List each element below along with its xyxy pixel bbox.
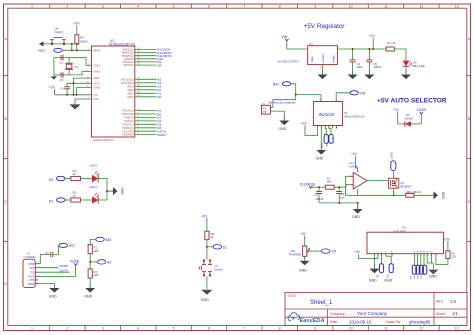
ground (crystal) bbox=[51, 75, 57, 80]
wire bbox=[304, 256, 306, 260]
ground (D2) bbox=[401, 70, 411, 79]
net flag BAT bbox=[273, 82, 291, 87]
svg-text:GND: GND bbox=[441, 192, 445, 200]
ground flag GND (rotated right) bbox=[434, 191, 445, 199]
svg-text:100nF: 100nF bbox=[316, 197, 324, 201]
wire bbox=[206, 276, 208, 289]
wire GND pin bbox=[75, 99, 92, 104]
svg-text:22K: 22K bbox=[94, 273, 99, 277]
svg-text:GND: GND bbox=[84, 295, 92, 299]
svg-text:10R milliohm: 10R milliohm bbox=[406, 190, 423, 194]
wire gate bbox=[367, 180, 388, 182]
svg-text:SCL: SCL bbox=[325, 143, 328, 148]
svg-text:X1: X1 bbox=[75, 65, 79, 69]
svg-text:13: 13 bbox=[455, 4, 459, 8]
MCU pin 27 A4 bbox=[121, 81, 162, 85]
svg-text:GND: GND bbox=[279, 127, 287, 131]
svg-text:6: 6 bbox=[208, 4, 210, 8]
svg-text:XTAL2: XTAL2 bbox=[93, 71, 101, 74]
power flag +5V (VCC) bbox=[49, 85, 56, 95]
svg-text:11: 11 bbox=[384, 326, 388, 330]
wire bbox=[65, 199, 71, 201]
I2C pin headers SDA SCL bbox=[320, 129, 333, 150]
svg-text:-: - bbox=[354, 175, 355, 179]
svg-text:+: + bbox=[354, 184, 356, 188]
svg-text:A0: A0 bbox=[157, 95, 161, 99]
svg-text:C8: C8 bbox=[60, 78, 64, 82]
ground (button) bbox=[201, 290, 213, 302]
wire DTR to RST bbox=[38, 245, 59, 263]
connector U7 FT232RL bbox=[23, 251, 36, 287]
svg-text:Sheet_1: Sheet_1 bbox=[310, 300, 333, 306]
MCU pin 12 D6 bbox=[122, 112, 161, 116]
power flag +5V (backlight) bbox=[444, 237, 451, 250]
svg-text:11: 11 bbox=[384, 4, 388, 8]
svg-text:8: 8 bbox=[279, 4, 281, 8]
wire bbox=[405, 66, 407, 74]
wire bbox=[287, 41, 308, 49]
power flag +5V bbox=[393, 108, 400, 124]
LED2 bbox=[90, 163, 100, 182]
U7 pin stubs bbox=[35, 264, 38, 284]
power flag +5V bbox=[201, 214, 208, 231]
ground (MCU) bbox=[69, 104, 80, 109]
svg-text:D11/MOSI: D11/MOSI bbox=[300, 182, 315, 186]
wire TX bbox=[38, 268, 70, 272]
svg-text:GND: GND bbox=[28, 282, 36, 286]
svg-text:4: 4 bbox=[137, 4, 139, 8]
title block bbox=[285, 292, 467, 325]
MCU pin 23 A0 bbox=[127, 95, 161, 99]
svg-text:ATMEGA328P-PU: ATMEGA328P-PU bbox=[109, 43, 136, 47]
svg-text:D1/TX: D1/TX bbox=[59, 268, 68, 272]
svg-text:PD0(RXD): PD0(RXD) bbox=[122, 134, 133, 137]
wire INA219 IN+ to VIN flag bbox=[336, 91, 366, 99]
LED D2 bbox=[403, 61, 425, 68]
wire crystal to XTAL1 bbox=[68, 58, 91, 75]
MCU pin 28 A5 bbox=[121, 78, 161, 82]
wire pin1 to ground bbox=[374, 256, 376, 268]
svg-text:C7: C7 bbox=[60, 61, 64, 65]
svg-text:7: 7 bbox=[243, 4, 245, 8]
svg-text:+5V: +5V bbox=[393, 108, 400, 112]
MCU pin 15 D9 bbox=[123, 60, 162, 64]
svg-text:RST: RST bbox=[69, 244, 75, 248]
net flag BAT bbox=[96, 237, 112, 242]
MCU pin 26 A3 bbox=[127, 85, 161, 89]
net flag VIN bbox=[282, 35, 289, 41]
ground (P1) bbox=[279, 116, 290, 131]
resistor R7 bbox=[325, 176, 334, 189]
title block values bbox=[310, 299, 458, 325]
svg-text:GND: GND bbox=[201, 298, 210, 302]
resistor R3 bbox=[386, 41, 396, 51]
port arrow RST bbox=[39, 41, 46, 52]
svg-text:ADC0: ADC0 bbox=[127, 96, 134, 99]
MCU pin 17 D11/MOSI bbox=[121, 54, 171, 58]
svg-text:Input: Input bbox=[310, 56, 314, 62]
svg-text:U4: U4 bbox=[309, 42, 313, 46]
svg-text:+5V: +5V bbox=[354, 250, 361, 254]
MCU pin 25 A2 bbox=[127, 88, 161, 92]
wire bbox=[89, 278, 91, 287]
svg-text:Bornera 2p ensamble: Bornera 2p ensamble bbox=[269, 100, 296, 104]
wire bbox=[414, 194, 434, 196]
wire VCC + net flag VUSB bbox=[38, 260, 80, 277]
LCD pin numbers bbox=[373, 252, 433, 254]
ground (U7) bbox=[49, 284, 60, 299]
svg-text:1: 1 bbox=[31, 326, 33, 330]
connector JP1 LCD 16x2 bbox=[367, 226, 444, 254]
pin header RS (capsule) bbox=[385, 256, 393, 278]
junction dot bbox=[106, 190, 108, 192]
svg-text:2: 2 bbox=[66, 4, 68, 8]
regulator U4 MC7805CDTRKG bbox=[278, 42, 338, 65]
capacitor C7 bbox=[60, 55, 64, 65]
svg-text:GND: GND bbox=[369, 279, 377, 283]
svg-text:D1: D1 bbox=[223, 245, 227, 249]
svg-text:GND: GND bbox=[93, 98, 99, 101]
MCU pin 24 A1 bbox=[127, 92, 161, 96]
svg-text:Blue LED: Blue LED bbox=[413, 64, 425, 68]
wire bbox=[76, 44, 78, 50]
svg-text:5: 5 bbox=[173, 4, 175, 8]
svg-text:10: 10 bbox=[349, 4, 353, 8]
svg-text:10: 10 bbox=[349, 326, 353, 330]
svg-text:6: 6 bbox=[208, 326, 210, 330]
svg-text:TITLE:: TITLE: bbox=[287, 294, 297, 298]
op-amp U3.1 LM358 bbox=[349, 161, 367, 195]
svg-text:TRIMMER: TRIMMER bbox=[288, 253, 301, 257]
crystal subcircuit: wire top bbox=[54, 57, 68, 59]
svg-text:A2: A2 bbox=[107, 260, 111, 264]
IC U2 ATMEGA328P-PU bbox=[86, 39, 136, 142]
frame column ticks top bbox=[50, 4, 439, 8]
capacitor C8 bbox=[60, 72, 64, 82]
svg-text:BAT: BAT bbox=[273, 83, 279, 87]
svg-text:+5V: +5V bbox=[49, 85, 56, 89]
ground flag GND (rotated) bbox=[107, 187, 124, 195]
MCU pin 4 D2 bbox=[122, 126, 161, 130]
svg-text:1/1: 1/1 bbox=[452, 311, 458, 316]
power flag +5V (LCD) bbox=[354, 250, 378, 259]
net flag oval RST bbox=[54, 48, 63, 52]
capacitor C5 bbox=[366, 49, 381, 74]
MCU pin 19 D13/SCK bbox=[123, 48, 172, 52]
svg-text:Ground: Ground bbox=[321, 54, 325, 63]
diode D3 SS310 bbox=[398, 113, 422, 126]
wire source to sense resistor bbox=[394, 188, 406, 195]
MCU pin 14 D8 bbox=[123, 63, 161, 67]
svg-text:Your Company: Your Company bbox=[357, 311, 388, 316]
svg-text:GND: GND bbox=[429, 275, 437, 279]
wire bbox=[80, 199, 92, 201]
svg-text:MOSFET: MOSFET bbox=[400, 185, 412, 189]
wire to A2 flag bbox=[90, 260, 111, 265]
svg-text:AGND: AGND bbox=[93, 87, 100, 90]
svg-text:LED2: LED2 bbox=[90, 163, 98, 167]
junction dots bbox=[66, 82, 77, 95]
ground (LCD backlight) bbox=[428, 270, 438, 279]
svg-text:VO: VO bbox=[376, 275, 379, 279]
title block labels bbox=[287, 294, 446, 324]
svg-text:RX: RX bbox=[30, 266, 34, 270]
svg-text:EasyEDA: EasyEDA bbox=[300, 318, 325, 324]
svg-text:D3: D3 bbox=[49, 199, 53, 203]
wire RX bbox=[38, 264, 68, 268]
svg-text:C: C bbox=[468, 200, 471, 204]
svg-text:10uF: 10uF bbox=[357, 65, 364, 69]
svg-text:13: 13 bbox=[455, 326, 459, 330]
module U5 INA219 bbox=[313, 99, 364, 129]
LCD pin stubs bbox=[375, 254, 436, 257]
svg-text:P2: P2 bbox=[263, 110, 267, 114]
svg-text:ghosting85: ghosting85 bbox=[409, 319, 431, 324]
svg-text:1.0: 1.0 bbox=[450, 299, 457, 304]
svg-text:REV:: REV: bbox=[436, 300, 444, 304]
ground (divider) bbox=[84, 284, 95, 299]
svg-text:D8: D8 bbox=[157, 63, 161, 67]
svg-text:+5V Regulator: +5V Regulator bbox=[304, 23, 346, 30]
svg-text:LED1: LED1 bbox=[90, 185, 98, 189]
wire bbox=[80, 178, 92, 180]
wire backlight cathode to ground bbox=[427, 256, 433, 269]
svg-text:Date:: Date: bbox=[330, 320, 338, 324]
MCU pin 16 D10 bbox=[124, 57, 163, 61]
pin headers D4-D7 (capsules) bbox=[409, 256, 427, 279]
power flag +5V (above R4) bbox=[73, 21, 80, 35]
svg-text:1k: 1k bbox=[73, 194, 77, 198]
power flag +5V (INA219) bbox=[301, 122, 318, 136]
net flag oval RST bbox=[59, 243, 75, 248]
switch U6 bbox=[50, 27, 66, 45]
trimmer VR1 bbox=[288, 246, 309, 257]
svg-text:GND: GND bbox=[352, 215, 360, 219]
capacitor C3 bbox=[314, 187, 324, 203]
MCU pin 3 D1/TX bbox=[123, 130, 167, 134]
svg-text:+5V: +5V bbox=[369, 34, 376, 38]
wire BAT to INA219 IN- bbox=[270, 84, 321, 108]
wire bbox=[311, 186, 326, 188]
svg-text:100nF: 100nF bbox=[373, 65, 381, 69]
svg-text:RST: RST bbox=[39, 49, 46, 53]
wire output rail bbox=[337, 48, 386, 50]
pin header VO (capsule) bbox=[376, 256, 384, 278]
svg-text:1: 1 bbox=[31, 4, 33, 8]
capacitor C6 bbox=[336, 187, 345, 203]
wire bbox=[394, 49, 406, 60]
svg-text:GND: GND bbox=[120, 188, 124, 196]
svg-text:D5: D5 bbox=[49, 178, 53, 182]
junction dots bbox=[51, 43, 78, 51]
connector P1 bbox=[262, 103, 271, 114]
junction dot bbox=[295, 94, 297, 96]
junction dots bbox=[352, 48, 375, 50]
svg-text:12: 12 bbox=[419, 326, 423, 330]
ground (trimmer) bbox=[299, 256, 310, 272]
svg-text:AVCC: AVCC bbox=[93, 82, 100, 85]
crystal X1 bbox=[65, 63, 78, 69]
svg-text:GND: GND bbox=[299, 268, 307, 272]
svg-text:GND: GND bbox=[49, 295, 57, 299]
svg-text:VUSB: VUSB bbox=[417, 108, 427, 112]
switch U1 bbox=[198, 260, 223, 277]
svg-text:P1: P1 bbox=[263, 106, 267, 110]
net label D4 bbox=[49, 198, 65, 204]
wire VCC rail bbox=[55, 78, 92, 95]
ground (C2) bbox=[348, 70, 358, 79]
svg-text:GND: GND bbox=[316, 157, 324, 161]
wire left vertical bbox=[53, 58, 55, 75]
resistor R10 shunt bbox=[406, 190, 423, 197]
svg-text:10KΩ: 10KΩ bbox=[80, 39, 88, 43]
junction dots bbox=[318, 186, 395, 204]
regulator ground pin bbox=[318, 65, 328, 80]
MCU pin 11 D5 bbox=[125, 116, 162, 120]
svg-text:LM358: LM358 bbox=[349, 164, 358, 168]
resistor R5 bbox=[71, 190, 81, 202]
svg-text:D0/RX: D0/RX bbox=[59, 264, 68, 268]
svg-text:INA219: INA219 bbox=[319, 112, 335, 117]
power flag +5V (op-amp) bbox=[351, 152, 358, 173]
svg-text:+5V: +5V bbox=[73, 21, 80, 25]
svg-text:22K: 22K bbox=[94, 249, 99, 253]
svg-text:8: 8 bbox=[279, 326, 281, 330]
wire wiper to VO flag bbox=[310, 249, 337, 254]
transistor Q1 MOSFET bbox=[388, 178, 412, 188]
power flag +5V (trimmer) bbox=[300, 232, 307, 246]
svg-text:RESET: RESET bbox=[93, 49, 102, 52]
resistor R6 bbox=[71, 169, 81, 181]
wire RESET to U2 bbox=[62, 49, 91, 51]
resistor R1 bbox=[88, 245, 99, 254]
svg-text:Drawn By:: Drawn By: bbox=[386, 320, 402, 324]
MCU pin 2 D0/RX bbox=[122, 133, 166, 137]
junction dot bbox=[206, 246, 208, 248]
svg-text:Switch: Switch bbox=[214, 268, 223, 272]
power flag +5V bbox=[369, 34, 376, 49]
svg-text:PB0(ICP): PB0(ICP) bbox=[123, 64, 133, 67]
wire drain bbox=[393, 170, 395, 178]
wire to + input bbox=[334, 185, 350, 188]
EasyEDA logo bbox=[288, 313, 300, 321]
wire GND to ground bbox=[38, 284, 54, 288]
svg-text:+5V: +5V bbox=[351, 152, 358, 156]
MCU pin 13 D7 bbox=[122, 109, 161, 113]
net flag VUSB bbox=[417, 108, 427, 124]
ground (C5) bbox=[364, 70, 374, 79]
MCU pin 6 D4 bbox=[125, 119, 162, 123]
svg-text:+5V: +5V bbox=[301, 122, 308, 126]
svg-text:MC7805CDTRKG: MC7805CDTRKG bbox=[278, 60, 300, 64]
svg-text:BAT: BAT bbox=[106, 238, 112, 242]
svg-text:VUSB: VUSB bbox=[70, 260, 80, 264]
frame row ticks sides bbox=[4, 76, 471, 242]
svg-text:+5V AUTO SELECTOR: +5V AUTO SELECTOR bbox=[377, 97, 447, 104]
svg-text:D0/RX: D0/RX bbox=[157, 133, 166, 137]
resistor R4 bbox=[75, 35, 88, 44]
U7 pin names bbox=[28, 262, 36, 286]
svg-text:7: 7 bbox=[243, 326, 245, 330]
svg-text:+5V: +5V bbox=[300, 232, 307, 236]
LED1 bbox=[90, 185, 100, 204]
svg-text:3: 3 bbox=[102, 4, 104, 8]
svg-text:ATMEGA328P-PU: ATMEGA328P-PU bbox=[93, 138, 114, 142]
resistor R8 bbox=[205, 231, 215, 240]
svg-text:FT232RL: FT232RL bbox=[24, 255, 37, 259]
wire feedback from - input to sense line bbox=[346, 176, 394, 195]
svg-text:INA219 MODULE: INA219 MODULE bbox=[344, 114, 365, 118]
svg-text:5: 5 bbox=[173, 326, 175, 330]
ground (op-amp) bbox=[352, 205, 363, 220]
wire bbox=[98, 179, 107, 201]
svg-text:+5V: +5V bbox=[444, 237, 451, 241]
svg-text:C: C bbox=[4, 200, 7, 204]
svg-text:3: 3 bbox=[102, 326, 104, 330]
frame column ticks bottom bbox=[50, 325, 439, 330]
svg-text:VO: VO bbox=[332, 250, 337, 254]
svg-text:220: 220 bbox=[327, 180, 332, 184]
svg-text:Company:: Company: bbox=[330, 312, 346, 316]
svg-text:2: 2 bbox=[66, 326, 68, 330]
svg-text:R3: R3 bbox=[387, 41, 391, 45]
svg-text:SS310: SS310 bbox=[405, 117, 414, 121]
svg-text:XTAL1: XTAL1 bbox=[93, 64, 101, 67]
svg-text:9: 9 bbox=[314, 4, 316, 8]
svg-text:2019-09-10: 2019-09-10 bbox=[349, 319, 372, 324]
svg-text:VIN: VIN bbox=[282, 35, 288, 39]
svg-text:9: 9 bbox=[314, 326, 316, 330]
wire bottom bbox=[54, 74, 68, 76]
svg-text:C4: C4 bbox=[60, 86, 64, 90]
svg-text:GND: GND bbox=[384, 279, 392, 283]
svg-text:1uF: 1uF bbox=[340, 195, 345, 199]
wire bbox=[65, 178, 71, 180]
wire bbox=[90, 239, 96, 244]
net label D5 bbox=[49, 176, 65, 182]
svg-text:Switch: Switch bbox=[55, 30, 64, 34]
svg-text:D: D bbox=[4, 282, 7, 286]
capacitor C4 bbox=[60, 86, 70, 90]
svg-text:+5V: +5V bbox=[201, 214, 208, 218]
wire ground rail bbox=[319, 203, 358, 208]
wire bbox=[71, 44, 73, 50]
net flag D11/MOSI bbox=[300, 182, 315, 188]
net flag D1 bbox=[207, 245, 227, 250]
ground (LCD pin1) bbox=[369, 264, 380, 283]
capacitor C1 bbox=[45, 251, 53, 257]
ground (INA219) bbox=[316, 146, 327, 161]
resistor R9 backlight bbox=[436, 251, 456, 265]
svg-text:LOAD: LOAD bbox=[390, 152, 394, 159]
svg-text:VIN: VIN bbox=[360, 91, 366, 95]
svg-text:Output: Output bbox=[332, 55, 336, 63]
load connector P4 (blue capsule) bbox=[390, 152, 396, 170]
svg-text:1k: 1k bbox=[73, 172, 77, 176]
svg-text:4: 4 bbox=[137, 326, 139, 330]
svg-text:Sheet:: Sheet: bbox=[436, 312, 446, 316]
wire bbox=[44, 43, 77, 45]
MCU pin 18 D12/MISO bbox=[121, 51, 172, 55]
resistor R2 bbox=[88, 269, 99, 278]
junction dot bbox=[89, 261, 91, 263]
svg-text:VCC: VCC bbox=[93, 94, 98, 97]
wire bbox=[89, 254, 91, 269]
wire P1 pin2 to ground bbox=[270, 111, 284, 120]
svg-text:220: 220 bbox=[452, 255, 457, 259]
MCU pin 5 D3 bbox=[122, 123, 161, 127]
wire bbox=[206, 240, 208, 260]
